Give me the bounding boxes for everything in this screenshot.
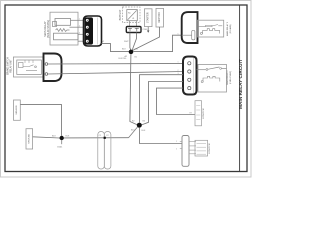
under-hood fuse/relay box (dashed)	[123, 7, 141, 23]
wire U1 pin4	[78, 40, 84, 42]
wire W2 C2 to C3 pin2	[48, 72, 183, 75]
connector C4 (bottom right)	[182, 136, 189, 167]
relay 1 contact	[198, 26, 206, 28]
relay unit U2 box	[13, 57, 43, 77]
svg-text:BLK: BLK	[52, 136, 56, 138]
svg-text:MAIN RELAY CIRCUIT: MAIN RELAY CIRCUIT	[238, 59, 243, 109]
fuse F1 box with slash	[127, 10, 138, 21]
C4 left tick stubs	[180, 140, 182, 142]
main frame	[5, 5, 247, 172]
U1 inner block 1	[55, 19, 71, 26]
C2 pin 1	[45, 63, 48, 66]
svg-text:BLK: BLK	[66, 136, 70, 138]
svg-text:5: 5	[176, 149, 177, 151]
ground stub	[61, 140, 63, 144]
capsule G2	[104, 132, 111, 170]
relay 2 coil	[203, 76, 220, 81]
to-tag box A (vertical text)	[145, 9, 153, 27]
wire C3 pin3 to table T1	[157, 88, 196, 114]
node G101 junction	[60, 136, 64, 140]
svg-text:MAIN RELAY 1: MAIN RELAY 1	[226, 21, 229, 36]
relay unit U1 box	[50, 12, 78, 45]
svg-text:BLK/YEL: BLK/YEL	[119, 58, 128, 60]
to-tag box B (vertical text)	[156, 8, 164, 27]
C2 pin 2	[45, 73, 48, 76]
capsule G1	[98, 132, 105, 170]
relay 2 contact	[197, 69, 206, 71]
wire fuse to J1 right leg	[132, 33, 137, 51]
svg-text:1: 1	[178, 62, 179, 64]
wire tag A with arrow	[147, 27, 149, 31]
svg-text:SENSOR: SENSOR	[16, 105, 18, 115]
svg-text:(FI MAIN): (FI MAIN)	[229, 24, 232, 33]
connector C1 (4-pin, black insert)	[84, 16, 102, 46]
wire U1 pin3	[78, 33, 84, 35]
relay R-M1 connector (white D-shape)	[182, 12, 198, 43]
to-tag box C (vertical text)	[14, 100, 21, 120]
svg-text:RELAY UNIT: RELAY UNIT	[9, 59, 12, 73]
svg-text:2: 2	[79, 25, 80, 27]
svg-text:(SOLID STATE): (SOLID STATE)	[46, 20, 50, 38]
connector C3 (white D-shape, 4-pin)	[183, 57, 197, 95]
key pin inside connector	[192, 30, 195, 40]
C4 pin wires to T2	[189, 141, 196, 143]
splice tick on ground bus	[104, 137, 106, 139]
wire J2 down to C4	[140, 128, 183, 144]
table box T2	[195, 140, 208, 156]
to-tag box D (vertical text)	[26, 129, 33, 149]
main relay 1 box	[198, 20, 224, 37]
C100 terminal 1	[128, 27, 132, 29]
svg-text:5: 5	[178, 33, 179, 35]
U1 inner block 2	[54, 33, 79, 40]
svg-text:G101: G101	[57, 147, 63, 149]
wire C3 mid pin to node J2	[141, 82, 183, 126]
wire U1 pin2	[70, 26, 85, 28]
svg-text:IGNITION: IGNITION	[159, 12, 161, 23]
C100 terminal 2	[135, 27, 139, 29]
wire J2 diagonal to ground bus	[129, 127, 138, 138]
connector C100 (bold box)	[126, 27, 141, 33]
wire fuse to J1 left leg	[129, 33, 132, 51]
outer light border	[1, 1, 252, 178]
svg-text:BLK: BLK	[122, 49, 126, 51]
svg-text:(FUEL PUMP): (FUEL PUMP)	[230, 71, 232, 85]
svg-text:BLK: BLK	[142, 130, 146, 132]
title column divider	[239, 5, 241, 172]
svg-text:ECM/PCM: ECM/PCM	[209, 143, 211, 154]
svg-text:BRAKE SWITCH: BRAKE SWITCH	[7, 57, 10, 75]
svg-text:3: 3	[79, 33, 80, 35]
node J1	[129, 50, 134, 55]
relay 1 coil	[203, 29, 220, 34]
U2 inner box	[17, 60, 42, 74]
wire W1 C2 to C3 pin1	[48, 62, 183, 65]
wire tag D to G101 node	[33, 137, 60, 138]
svg-text:WHT: WHT	[124, 41, 129, 43]
svg-text:BATTERY: BATTERY	[119, 9, 122, 20]
svg-text:ECM/PCM: ECM/PCM	[203, 108, 205, 119]
U1 inner sub-block	[53, 22, 57, 27]
svg-text:2: 2	[178, 70, 179, 72]
svg-text:1: 1	[176, 141, 177, 143]
svg-text:1: 1	[79, 19, 80, 21]
main relay 2 box	[198, 65, 227, 93]
svg-text:STARTER: STARTER	[146, 12, 149, 23]
svg-text:MAIN RELAY 2: MAIN RELAY 2	[226, 70, 229, 85]
wire ground bus horizontal	[64, 137, 129, 139]
wire J1 to relay1 connector	[133, 35, 181, 51]
wire tag B to J1	[132, 27, 160, 51]
connector C2 (white D-shape)	[44, 54, 62, 82]
wire J1 down to node J2	[130, 54, 137, 124]
wire tag C to G101 node	[20, 105, 61, 136]
wire C3 pin4 to node J2	[140, 75, 184, 123]
node J2	[137, 123, 142, 128]
U2 contact detail	[19, 63, 24, 68]
wire U1 pin1	[71, 19, 85, 21]
resistor R1 zigzag	[56, 29, 70, 32]
wire fuse box to connector stubs	[129, 21, 131, 27]
svg-text:GROUND: GROUND	[28, 134, 30, 144]
table box T1	[195, 101, 202, 126]
wire C1 to node J1	[102, 44, 130, 52]
svg-text:E9: E9	[190, 113, 192, 115]
